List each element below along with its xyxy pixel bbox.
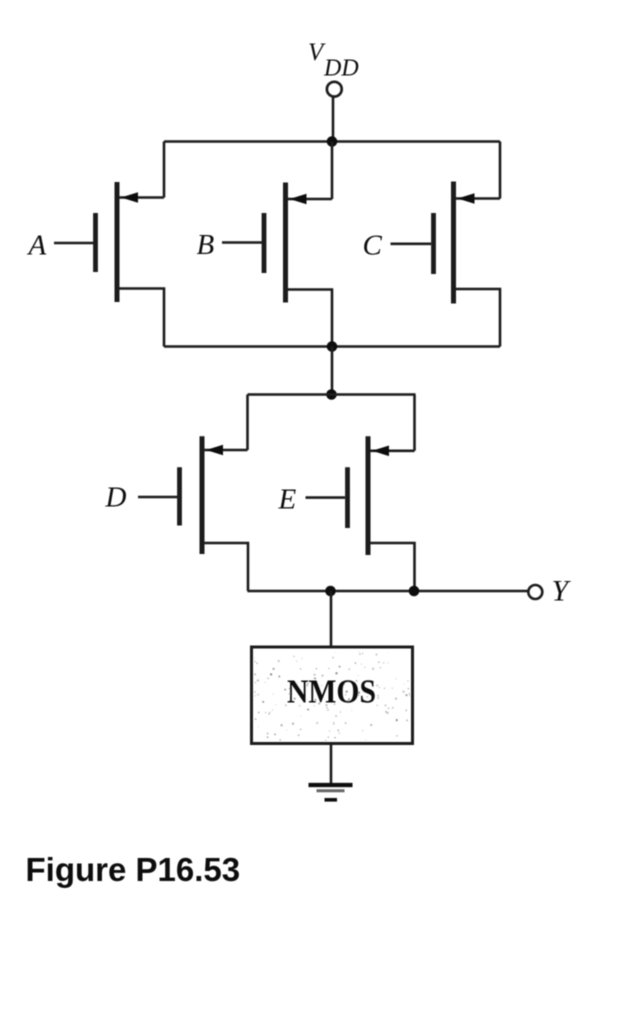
junction: output rail / NMOS lead [325, 586, 336, 597]
wire: gate lead of transistor E [306, 496, 346, 499]
svg-text:Y: Y [552, 575, 572, 608]
svg-text:E: E [278, 484, 297, 516]
svg-text:D: D [105, 482, 127, 514]
wire: transistor B source up to VDD rail [331, 142, 334, 200]
svg-text:DD: DD [323, 56, 359, 82]
wire: second-stage source rail [248, 393, 416, 396]
wire: transistor D source up to second-stage rail [246, 395, 249, 451]
wire: gate lead of transistor B [222, 241, 262, 244]
NMOS block scan speckle (texture) [254, 651, 410, 741]
wire: gate lead of transistor A [54, 242, 94, 245]
wire: common drain rail of A,B,C [164, 345, 500, 348]
wire: gate lead of transistor D [138, 496, 178, 499]
transistor E (PMOS) [348, 436, 415, 555]
junction: second-stage rail center [326, 389, 337, 400]
svg-text:NMOS: NMOS [287, 674, 376, 711]
ground symbol [309, 785, 353, 800]
transistor B (PMOS) [264, 183, 332, 303]
NMOS block box [252, 647, 413, 744]
wire: transistor C source up to VDD rail [499, 142, 502, 199]
transistor D (PMOS) [180, 436, 248, 554]
wire: output node down to NMOS block [330, 591, 333, 647]
wire: VDD terminal to top rail [332, 97, 335, 141]
svg-text:A: A [27, 230, 47, 262]
wire: gate lead of transistor C [391, 243, 432, 246]
transistor C (PMOS) [434, 182, 501, 304]
wire: link from drain rail down to second-stage rail [331, 347, 334, 395]
wire: top VDD rail [164, 140, 500, 143]
junction: VDD rail / transistor B source [327, 136, 338, 147]
transistor A (PMOS) [96, 182, 165, 302]
wire: NMOS block to ground [330, 743, 333, 784]
junction: drain rail / link to second stage [327, 341, 338, 352]
output terminal Y (open circle) [528, 585, 542, 599]
wire: transistor E source up to second-stage rail [413, 395, 416, 451]
svg-text:C: C [363, 230, 383, 262]
svg-text:B: B [197, 229, 215, 261]
svg-text:Figure P16.53: Figure P16.53 [26, 851, 241, 888]
wire: transistor A drain connection [119, 289, 164, 347]
power terminal VDD (open circle) [327, 82, 342, 97]
wire: transistor C drain connection [456, 289, 501, 347]
wire: output rail to Y [248, 590, 529, 593]
wire: transistor E drain connection [370, 543, 415, 591]
wire: transistor A source up to VDD rail [163, 142, 166, 198]
wire: transistor B drain connection [288, 290, 333, 347]
node VDD label [308, 39, 359, 82]
wire: transistor D drain connection [204, 543, 248, 591]
junction: output rail / transistor E drain [409, 586, 420, 597]
